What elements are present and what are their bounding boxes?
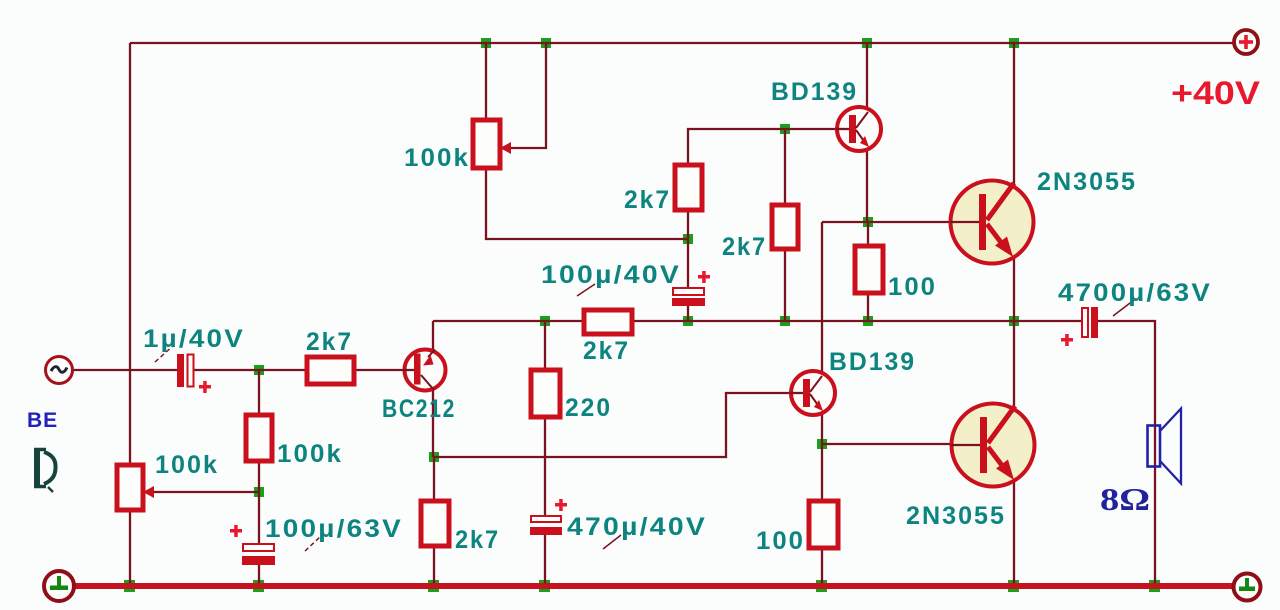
- capacitor C4 470u/40V solid bar: [530, 527, 562, 535]
- node ground junction x545: [539, 580, 550, 592]
- wire BD139 Q2 collector-emitter vertical: [866, 43, 868, 222]
- capacitor C4 470u/40V outline bar: [531, 516, 561, 522]
- wire cap C3 to ground: [258, 565, 260, 586]
- potentiometer 100k P2 body: [117, 465, 143, 510]
- capacitor C1 1u/40V solid bar: [177, 354, 184, 387]
- node ground junction x130: [124, 580, 135, 592]
- wire 2k7 R8 through lead: [433, 457, 435, 586]
- potentiometer P2 wiper arrow: [143, 486, 154, 498]
- wire cap C2 bottom to mid rail: [687, 306, 689, 321]
- capacitor C2 100u/40V solid bar: [672, 298, 705, 306]
- node mid rail junction x545: [540, 316, 550, 326]
- wire left rail: [129, 43, 131, 586]
- node top rail junction x1014: [1009, 38, 1019, 48]
- node mid rail junction x1014: [1009, 316, 1019, 326]
- node junction x688 y236: [683, 234, 693, 244]
- node top rail junction x867: [862, 38, 872, 48]
- node junction x259 y492: [254, 487, 264, 497]
- svg-text:2k7: 2k7: [624, 186, 671, 214]
- wire BD139 Q3 emitter node to 2N3055 Q5 base: [822, 443, 951, 445]
- wire 2N3055 Q5 collector-emitter vertical: [1013, 321, 1015, 586]
- wire leader 100u/63V: [305, 536, 321, 551]
- node mid rail junction x688: [683, 316, 693, 326]
- node junction x822 y444: [817, 439, 827, 449]
- wire leader 1u/40V: [155, 345, 174, 362]
- node junction x868 y222: [863, 217, 873, 227]
- wire leader 4700u/63V: [1113, 300, 1134, 316]
- svg-text:2N3055: 2N3055: [906, 502, 1006, 530]
- svg-text:220: 220: [565, 394, 612, 422]
- transistor BC212 Q1: [403, 350, 446, 391]
- svg-text:100: 100: [888, 273, 937, 301]
- node junction x785 y129: [780, 124, 790, 134]
- svg-text:4700µ/63V: 4700µ/63V: [1058, 279, 1212, 307]
- capacitor C3 100u/63V outline bar: [243, 544, 274, 551]
- terminal ground left: [44, 571, 74, 601]
- svg-text:BE: BE: [27, 409, 58, 432]
- wire leader 100u/40V: [577, 284, 595, 296]
- svg-text:+40V: +40V: [1171, 75, 1261, 111]
- svg-text:8Ω: 8Ω: [1100, 481, 1150, 517]
- wire input source to cap C1: [73, 369, 177, 371]
- node input junction x259 y370: [254, 365, 264, 375]
- svg-text:2N3055: 2N3055: [1037, 168, 1137, 196]
- svg-text:2k7: 2k7: [583, 337, 630, 365]
- capacitor C3 plus: [230, 529, 242, 533]
- svg-text:BD139: BD139: [771, 78, 858, 106]
- wire BC212 Q1 vertical: [432, 321, 434, 457]
- potentiometer P1 wiper arrow: [500, 142, 511, 154]
- icon BE microphone: [34, 449, 56, 492]
- node ground junction x1155: [1149, 580, 1160, 592]
- svg-text:100k: 100k: [277, 440, 343, 468]
- svg-text:2k7: 2k7: [306, 328, 353, 356]
- wire pot2 wiper: [152, 491, 259, 493]
- capacitor C4 plus: [555, 503, 567, 507]
- wire pot1 bottom lead: [486, 168, 688, 239]
- wire pot1 wiper riser: [510, 43, 546, 148]
- svg-text:100µ/40V: 100µ/40V: [541, 261, 681, 289]
- resistor 220 R6: [531, 370, 560, 417]
- transistor BD139 Q3: [790, 371, 835, 415]
- source AC input: [46, 357, 73, 384]
- resistor 100 R3: [855, 246, 883, 293]
- capacitor C1 1u/40V outline bar: [188, 355, 194, 387]
- speaker 8ohm: [1148, 409, 1182, 484]
- resistor 2k7 R1: [675, 165, 702, 210]
- resistor 2k7 R8: [421, 501, 449, 546]
- terminal ground right: [1234, 574, 1261, 601]
- terminal +40V: [1234, 30, 1258, 54]
- svg-text:2k7: 2k7: [722, 233, 767, 261]
- capacitor C1 plus: [199, 385, 211, 389]
- node top rail junction x486: [481, 38, 491, 48]
- wire ground rail: [73, 583, 1233, 589]
- wire node to 2N3055 Q4 base: [822, 221, 950, 223]
- svg-text:2k7: 2k7: [455, 526, 500, 554]
- wire mid rail right of cap C5: [1098, 321, 1155, 586]
- transistor 2N3055 Q4: [950, 181, 1034, 264]
- transistor BD139 Q2: [836, 107, 881, 151]
- svg-text:100k: 100k: [404, 144, 470, 172]
- wire BC212 collector node to BD139 Q3 base: [434, 393, 790, 457]
- capacitor C5 plus: [1061, 338, 1073, 342]
- wire 2k7 R2 bottom lead: [784, 249, 786, 321]
- resistor 100k R5: [246, 415, 272, 461]
- capacitor C2 plus: [698, 275, 710, 279]
- node top rail junction x546: [541, 38, 551, 48]
- node mid rail junction x868: [863, 316, 873, 326]
- svg-text:100k: 100k: [155, 451, 219, 479]
- wire 2N3055 Q4 collector-emitter vertical: [1013, 43, 1015, 321]
- node ground junction x822: [816, 580, 827, 592]
- capacitor C2 100u/40V outline bar: [673, 288, 704, 295]
- wire 220 R6 top lead: [544, 321, 546, 515]
- node ground junction x434: [428, 580, 439, 592]
- svg-text:BC212: BC212: [382, 395, 456, 423]
- capacitor C5 4700u/63V solid bar: [1091, 307, 1098, 338]
- resistor 100 R9: [809, 501, 838, 548]
- wire mid rail: [433, 320, 1081, 322]
- wire 2k7 R4 to BC212 base: [354, 369, 403, 371]
- svg-text:100: 100: [756, 527, 805, 555]
- wire 2k7 R1 bottom to cap: [687, 210, 689, 287]
- transistor 2N3055 Q5: [951, 404, 1035, 487]
- node mid rail junction x785: [780, 316, 790, 326]
- wire cap C1 to 2k7 R4: [193, 369, 307, 371]
- svg-text:1µ/40V: 1µ/40V: [143, 325, 245, 353]
- node ground junction x259: [253, 580, 264, 592]
- resistor 2k7 input R4: [307, 357, 354, 384]
- wire down to BD139 Q3 collector: [821, 222, 823, 586]
- wire pot1 top lead: [485, 43, 487, 120]
- svg-text:BD139: BD139: [829, 348, 916, 376]
- potentiometer 100k P1 body: [473, 120, 500, 168]
- resistor 2k7 horizontal mid R7: [584, 310, 632, 334]
- wire leader 470u/40V: [603, 535, 621, 549]
- wire 2k7 R1 top to base line: [688, 129, 836, 165]
- capacitor C3 100u/63V solid bar: [242, 556, 275, 565]
- wire 2k7 R2 top lead: [784, 129, 786, 205]
- resistor 2k7 R2: [772, 205, 798, 249]
- capacitor C5 4700u/63V outline bar: [1082, 308, 1088, 337]
- node ground junction x1014: [1008, 580, 1019, 592]
- node junction x434 y457: [429, 452, 439, 462]
- wire 100k R5 vertical through: [258, 370, 260, 543]
- svg-text:100µ/63V: 100µ/63V: [265, 515, 403, 543]
- wire 100 R3 through lead: [867, 222, 869, 321]
- svg-text:470µ/40V: 470µ/40V: [567, 513, 707, 541]
- wire cap C4 to ground: [544, 535, 546, 586]
- wire top rail: [130, 42, 1233, 44]
